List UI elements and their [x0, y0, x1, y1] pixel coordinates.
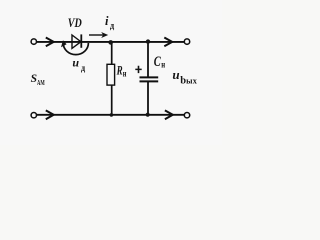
arrowhead output bottom wire	[165, 110, 173, 119]
diode VD cathode bar	[80, 34, 82, 47]
arrowhead output top wire	[164, 38, 172, 47]
junction dot R bottom	[110, 113, 114, 117]
svg-text:н: н	[123, 69, 127, 79]
terminal top-left	[31, 39, 36, 44]
diode VD triangle	[72, 35, 81, 48]
svg-text:н: н	[161, 60, 165, 70]
wire Cn branch bottom	[147, 82, 149, 115]
arrowhead input bottom wire	[46, 110, 54, 119]
wire Cn branch top	[147, 42, 149, 77]
svg-text:bых: bых	[180, 76, 198, 87]
svg-text:VD: VD	[68, 15, 82, 30]
plus sign of Cn	[135, 66, 141, 73]
capacitor Cn bottom plate	[140, 80, 159, 82]
junction dot C top	[146, 39, 150, 43]
wire top rail	[37, 41, 185, 43]
wire Rn branch bottom	[111, 85, 113, 115]
capacitor Cn top plate	[140, 76, 159, 78]
terminal bottom-left	[31, 113, 36, 118]
arrowhead id	[101, 32, 108, 38]
resistor Rn body	[107, 64, 115, 85]
wire bottom rail	[37, 114, 185, 116]
svg-text:i: i	[105, 14, 109, 28]
svg-text:АМ: АМ	[37, 78, 45, 87]
arrowhead ud arc	[61, 40, 67, 47]
svg-text:u: u	[172, 67, 179, 82]
wire Rn branch top	[111, 42, 113, 64]
svg-text:д: д	[110, 20, 115, 30]
svg-text:д: д	[81, 63, 86, 73]
terminal top-right	[184, 39, 189, 44]
svg-text:R: R	[116, 64, 123, 78]
junction dot C bottom	[146, 113, 150, 117]
terminal bottom-right	[184, 113, 189, 118]
arrowhead input top wire	[46, 38, 54, 47]
junction dot R top	[108, 40, 113, 45]
svg-text:u: u	[72, 56, 79, 70]
voltage ud arc	[63, 43, 88, 55]
current id arrow line	[89, 34, 105, 36]
